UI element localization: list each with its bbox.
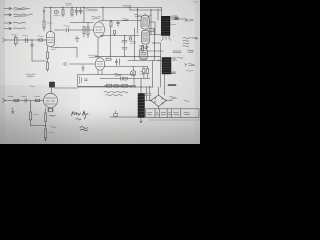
label 50u	[80, 10, 84, 12]
V3 bottom leads	[98, 70, 102, 75]
label ECC40 above V2	[92, 17, 101, 20]
wire bottom mains lead	[110, 116, 138, 118]
label near x86 bus	[86, 9, 92, 11]
small component right mid	[173, 51, 181, 53]
label 6,3V in box	[115, 74, 122, 76]
label ECC40 above V3	[88, 55, 98, 58]
date text	[76, 119, 81, 120]
pilot lamp circle near bus	[54, 10, 58, 14]
tube V4 electrodes	[142, 18, 148, 26]
bridge diode mark 2	[161, 97, 163, 99]
wire: feedback return	[32, 60, 47, 62]
input jack J4 label	[14, 28, 26, 29]
node PT	[140, 86, 141, 87]
tube V4 envelope output upper	[141, 15, 149, 29]
filter cap Cf2	[149, 87, 152, 101]
title text Fona Amp	[72, 111, 89, 119]
label above C9	[22, 95, 27, 98]
wire T1 top stub	[158, 9, 162, 11]
capacitor on heater wire	[121, 77, 123, 80]
label right of C7	[130, 41, 137, 43]
bridge rectifier BR1 diamond	[151, 95, 166, 107]
tube V6 electrodes	[141, 51, 147, 59]
winding spec text line 3	[183, 42, 189, 45]
component box on PS bus	[122, 85, 128, 88]
capacitor C2 hanging from bus	[75, 8, 78, 16]
node at C4 tap	[31, 39, 32, 40]
resistor R8 under wire	[87, 23, 89, 38]
node on PS bus	[149, 86, 150, 87]
label above P1	[12, 34, 17, 37]
node heater bus c	[158, 60, 159, 61]
bridge diode mark 1	[154, 97, 156, 99]
resistor R11 near V5 grid	[130, 36, 132, 40]
parts list text row 1	[104, 91, 128, 94]
box internal element 2	[85, 79, 88, 81]
wire: V2 cathode down to lower bus	[100, 35, 139, 38]
table cell text 5	[174, 112, 180, 114]
wire: left boundary vertical a	[137, 8, 139, 34]
V4 V5 cathode resistor	[142, 45, 144, 52]
resistor R14 series phono	[35, 99, 40, 101]
node on bus at V1 feed	[50, 7, 51, 8]
lamp symbol in box	[131, 71, 136, 76]
fuse F1 on PS bus	[114, 85, 119, 88]
wire: V2 cathode down link	[97, 38, 99, 58]
box internal element 1	[80, 77, 82, 84]
capacitor C2b hanging from bus	[79, 8, 82, 15]
PS bus	[78, 86, 154, 88]
wire: B+ riser	[152, 61, 154, 88]
resistor R15 below phono row	[29, 101, 31, 126]
wire: screen drop vertical	[110, 27, 112, 57]
node on bus at R2	[62, 7, 63, 8]
label 4 ohm	[189, 19, 194, 21]
small text above row	[30, 85, 35, 88]
wire: V5 plate to OT2	[150, 34, 163, 36]
label EL84	[135, 14, 142, 16]
left note text 2	[51, 126, 56, 129]
wire: V2 plate bus	[100, 20, 141, 22]
node heater bus d	[110, 56, 111, 57]
wire: V4 plate to OT	[149, 22, 155, 35]
T1 lamination hatch	[170, 15, 178, 20]
wire: V2 top lead	[98, 21, 100, 22]
input jack J2 label	[14, 14, 33, 16]
connector symbol left of V3	[64, 63, 67, 66]
wire: pickup to V7	[51, 87, 53, 93]
wire: extra vertical right column b	[157, 9, 159, 20]
T2 hatch top right	[172, 57, 177, 61]
wire: left boundary vertical b	[134, 28, 136, 61]
resistor R9 on plate bus	[110, 21, 112, 27]
capacitor C9 phono	[25, 99, 27, 103]
resistor R3 hanging from bus	[71, 8, 73, 17]
table divider 1	[154, 109, 156, 118]
bridge corner dot right	[165, 100, 166, 101]
arrow end bottom	[44, 139, 46, 141]
switch S1 on PS bus	[107, 84, 112, 87]
resistor Rh1 right column	[143, 67, 145, 79]
T1 winding stripes	[162, 19, 170, 34]
wire: C5 to V2 grid	[68, 29, 93, 31]
node on bus at R3	[71, 7, 72, 8]
tube V3 envelope splitter	[95, 58, 105, 70]
volume pot P1	[15, 35, 18, 46]
wire: V3 vertical link	[76, 48, 78, 58]
label 6,3 near bus	[54, 14, 60, 17]
tube V4 top lead pin	[144, 14, 146, 16]
paper background	[0, 0, 200, 144]
pilot lamp dot	[56, 12, 57, 13]
resistor R1 V1 plate feed	[43, 12, 45, 31]
tube V2 envelope	[94, 22, 105, 37]
signature line 2	[80, 129, 88, 130]
left note text 1	[51, 114, 56, 117]
table cell text 1	[147, 112, 152, 114]
small box on heater wire	[124, 77, 127, 80]
node at x151	[150, 9, 151, 10]
wire: OT primary top feed	[130, 8, 162, 17]
label above R14	[35, 95, 40, 98]
label right of R1	[47, 22, 52, 25]
node at C7 link	[124, 35, 125, 36]
lamp cross	[131, 71, 135, 75]
input jack J3 arrow	[4, 22, 12, 24]
terminal table frame	[146, 109, 200, 118]
phono input arrow	[3, 99, 6, 102]
label 220k 1W above bus	[123, 5, 132, 7]
bridge corner dot left	[150, 100, 151, 101]
node heater bus b	[154, 56, 155, 57]
label FONO section	[26, 74, 35, 77]
wire: supply drop to output stage	[129, 8, 131, 11]
heater bus upper	[95, 55, 161, 57]
choke dash bar	[168, 84, 176, 85]
label above R13	[8, 95, 13, 98]
wire: phono input row	[6, 100, 44, 102]
resistor R7 under wire	[83, 27, 85, 38]
capacitor C3 coupling	[24, 38, 29, 43]
wire: V4 top lead	[148, 10, 151, 17]
wire: V2 plate feed from top bus	[102, 8, 104, 21]
output transformer T1 core	[161, 16, 170, 35]
label 25 ohm right	[184, 100, 189, 103]
table cell text 6	[184, 112, 190, 114]
tube V7 envelope phono	[44, 93, 58, 107]
node at R9	[110, 20, 111, 21]
input jack J3 label	[14, 22, 26, 23]
node PS bus x131	[130, 86, 131, 87]
label right of lamp	[140, 72, 146, 75]
resistor R2 hanging from bus	[62, 8, 64, 17]
resistor R17 lower chain	[44, 126, 46, 141]
filter cap Cf1	[145, 87, 148, 101]
speaker terminal bars	[175, 17, 179, 19]
wire: V6 top link	[139, 46, 144, 48]
capacitor C4 to cathode loop	[30, 40, 33, 61]
label 0,05 left of V3	[51, 47, 57, 49]
label 0,1 above C5	[64, 25, 70, 28]
wire from bridge right corner	[166, 100, 173, 102]
wire: T2 bottom lead down	[163, 74, 165, 95]
resistor R4 series	[37, 39, 44, 41]
wire: V2 bottom lead	[102, 36, 103, 37]
heater wire inside box	[100, 78, 150, 80]
node at screen feed	[83, 7, 84, 8]
capacitor C8 pair lower	[122, 48, 127, 57]
ground stub below input	[11, 108, 14, 114]
tube V3 electrodes	[97, 62, 103, 67]
node on PS bus x135	[134, 86, 135, 87]
power transformer PT core	[138, 94, 145, 118]
resistor Rh2 right column	[147, 67, 149, 79]
wire into bridge top	[158, 87, 160, 95]
label 0,1/500	[123, 19, 129, 21]
resistor R6 below cathode	[46, 63, 48, 72]
wire: C7 top link	[124, 36, 126, 41]
cathode element below V7	[48, 109, 53, 112]
table divider 5	[180, 109, 182, 118]
node at join	[45, 125, 46, 126]
V7 bottom leads	[49, 108, 53, 112]
wire: screen feed into V2 area	[70, 8, 94, 23]
wire to speaker arrow	[179, 18, 188, 21]
input jack J1 label	[14, 8, 30, 10]
PS bus parallel segment	[104, 84, 136, 86]
input jack J2 arrow	[4, 14, 12, 16]
node heater bus	[124, 56, 125, 57]
node at x130	[129, 7, 130, 8]
label right of R16	[49, 115, 54, 118]
wire: V3 grid from connector	[69, 63, 95, 65]
node at V2 plate feed	[102, 7, 103, 8]
bridge diode mark 3	[154, 102, 156, 104]
capacitor C7 pair upper	[122, 39, 127, 47]
label above R4	[38, 35, 44, 38]
heater bus lower	[128, 60, 163, 62]
wire: V1 plate to C5	[55, 29, 67, 31]
signature line 1	[80, 127, 87, 129]
T2 secondary dash	[170, 72, 176, 73]
table divider 4	[171, 109, 173, 118]
wire: V1 grid from input network	[6, 39, 47, 41]
label right of R15	[34, 113, 39, 116]
T2 winding stripes	[163, 60, 171, 73]
resistor R12 below heater bus	[106, 58, 111, 60]
tube V5 envelope output lower	[141, 30, 149, 44]
resistor R13 series phono	[14, 99, 19, 101]
tube V7 electrodes	[46, 98, 56, 104]
node at (154.4,43)	[154, 42, 155, 43]
input jack J1 arrow	[4, 7, 12, 9]
label right of R17	[49, 131, 54, 134]
wire: crossing at y43	[152, 42, 161, 44]
label right of bridge	[170, 97, 178, 99]
tube V5 electrodes	[142, 33, 148, 41]
wire: V1 to vertical link	[55, 47, 77, 49]
table divider 2	[158, 109, 160, 118]
output transformer T2 core	[162, 58, 171, 75]
input jack J4 arrow	[4, 27, 12, 29]
wire: right column vertical c	[160, 43, 162, 87]
tube V1 envelope	[47, 32, 55, 47]
tube V1 grid dashes	[48, 38, 54, 43]
winding spec text line 1	[183, 37, 198, 39]
heater wire extension	[134, 66, 148, 68]
winding spec text line 2	[183, 39, 189, 42]
node at (137.5,10)	[137, 9, 138, 10]
wire: bus left stub down	[43, 8, 45, 13]
ground cluster under V2 left	[75, 36, 79, 41]
wire above box to lamp	[105, 64, 134, 71]
tube V6 envelope lower right	[140, 48, 148, 60]
wire: extra vertical right column a	[150, 15, 152, 35]
wire: PT top lead	[140, 79, 142, 94]
small RC cluster below bus	[115, 59, 119, 66]
screen resistor between output tubes	[149, 28, 153, 32]
capacitor C6 on plate bus	[117, 21, 120, 26]
label 12V	[188, 50, 194, 52]
label right of T2	[177, 56, 183, 59]
label 220k above bus	[66, 3, 72, 5]
winding spec text line 4	[183, 45, 189, 48]
PT winding stripes	[138, 97, 144, 115]
label B below	[186, 69, 193, 72]
table cell text 4	[169, 112, 172, 114]
pickup element above V7	[49, 82, 54, 87]
table cell text 2	[156, 112, 159, 114]
T1 bottom lead stubs	[161, 36, 171, 42]
V4 V5 cathode capacitor	[146, 45, 149, 50]
resistor R16 V7 cathode chain	[44, 108, 46, 126]
wire: pickup right bend	[55, 87, 77, 89]
label above C3	[23, 34, 28, 37]
heater box enclosure	[78, 75, 135, 87]
bridge diode mark 4	[161, 102, 163, 104]
mains switch component	[114, 111, 117, 116]
table divider 3	[166, 109, 168, 118]
wire into bridge left	[145, 100, 151, 102]
wire: top HT bus	[44, 7, 162, 9]
input arrow to grid wire	[3, 38, 6, 42]
parts list text row 2	[106, 94, 123, 97]
label 12m with arrow	[185, 64, 196, 66]
tiny corner text top right	[193, 1, 198, 4]
label text below bus near x91	[91, 9, 98, 11]
small cap below V3 grid wire	[82, 65, 84, 72]
wire: V6 plate to OT2	[148, 50, 164, 52]
wire below PT	[140, 118, 142, 124]
resistor R5 V1 cathode	[46, 47, 48, 63]
wire: V1 plate lead from bus	[50, 8, 52, 32]
capacitor C5 coupling to V2	[67, 28, 69, 32]
faint rule below table	[149, 119, 200, 121]
tube V2 electrodes	[96, 27, 103, 33]
bridge bottom lead	[158, 107, 160, 109]
wire: right feed vertical	[153, 28, 155, 60]
wire joining R15 R16	[31, 125, 46, 127]
label below hatch	[171, 23, 176, 26]
resistor R10 on lower link	[114, 31, 116, 36]
table cell text 3	[161, 112, 166, 114]
